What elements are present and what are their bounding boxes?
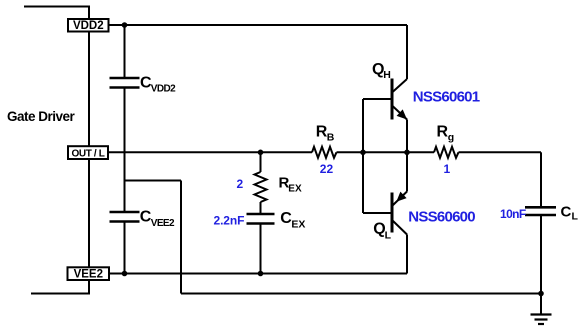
wire base branch vertical — [362, 99, 364, 213]
resistor REX — [255, 172, 267, 202]
svg-text:EX: EX — [291, 218, 305, 230]
svg-text:10nF: 10nF — [500, 207, 526, 221]
wire QH emitter to row — [406, 120, 408, 153]
svg-text:VDD2: VDD2 — [73, 20, 104, 32]
svg-text:C: C — [561, 204, 572, 221]
wire QH base — [363, 98, 391, 100]
capacitor CVEE2 — [110, 212, 140, 222]
svg-text:2: 2 — [237, 177, 244, 191]
wire ground stem — [540, 294, 542, 315]
label CVDD2 — [140, 75, 176, 95]
svg-text:g: g — [448, 131, 454, 143]
svg-text:H: H — [383, 69, 391, 81]
wire VDD2 rail — [109, 24, 408, 26]
capacitor CVDD2 — [110, 78, 140, 88]
transistor Q_H — [392, 79, 407, 120]
node dot REX top junction — [258, 150, 264, 156]
label QH — [372, 61, 391, 81]
wire QL base — [363, 212, 391, 214]
label CL — [561, 204, 579, 223]
svg-text:22: 22 — [320, 162, 334, 176]
svg-text:R: R — [437, 124, 449, 141]
gate driver bottom stub wire — [31, 293, 90, 295]
resistor Rg — [434, 147, 459, 158]
wire QL emitter to row — [406, 152, 408, 191]
node dot CEX bottom junction — [258, 271, 264, 277]
pin box VEE2 — [68, 267, 110, 280]
svg-text:L: L — [385, 229, 392, 241]
wire OUT/L row — [108, 151, 541, 153]
svg-text:VEE2: VEE2 — [74, 268, 103, 280]
svg-text:B: B — [327, 131, 335, 143]
svg-text:VDD2: VDD2 — [151, 84, 176, 95]
node dot emitter output junction — [404, 150, 410, 156]
svg-text:L: L — [572, 210, 579, 222]
svg-text:EX: EX — [288, 184, 302, 195]
wire REX branch top — [260, 152, 262, 172]
pin box OUT/L — [68, 146, 108, 159]
svg-text:NSS60601: NSS60601 — [413, 88, 480, 105]
label CEX — [280, 210, 305, 230]
wire CEX to VEE2 rail — [260, 224, 262, 274]
svg-text:NSS60600: NSS60600 — [408, 209, 475, 226]
svg-text:VEE2: VEE2 — [151, 218, 175, 229]
wire REX to CEX — [260, 202, 262, 214]
svg-text:2.2nF: 2.2nF — [214, 214, 245, 228]
wire ground rail — [181, 293, 541, 295]
node dot ground rail junction — [538, 291, 544, 297]
wire mid branch to ground rail — [125, 181, 182, 294]
ground symbol — [531, 315, 552, 325]
gate driver left pin rail vertical — [88, 7, 90, 294]
pin box VDD2 — [68, 19, 109, 32]
label QL — [373, 221, 391, 242]
capacitor CEX — [247, 214, 275, 224]
wire QL collector to VEE2 rail — [406, 235, 408, 274]
label CVEE2 — [140, 208, 175, 228]
wire decoupling branch vertical — [124, 25, 126, 274]
svg-text:1: 1 — [444, 162, 451, 176]
label RB — [316, 124, 335, 144]
label REX — [279, 175, 302, 195]
wire VEE2 rail — [109, 273, 407, 275]
wire CL to ground rail — [540, 215, 542, 294]
resistor RB — [312, 147, 337, 158]
wire Q_H collector vertical — [406, 25, 408, 79]
node dot base branch junction — [360, 150, 366, 156]
svg-text:Gate Driver: Gate Driver — [7, 109, 76, 124]
wire output corner to CL — [540, 152, 542, 207]
node dot VDD2/CVDD2 junction — [122, 22, 128, 28]
capacitor CL — [525, 207, 556, 215]
node dot CVEE2 bottom junction — [122, 271, 128, 277]
transistor Q_L — [392, 192, 407, 235]
svg-text:OUT / L: OUT / L — [71, 149, 104, 160]
label Rg — [437, 124, 455, 144]
svg-text:C: C — [280, 210, 292, 227]
gate driver top stub wire — [24, 6, 90, 8]
